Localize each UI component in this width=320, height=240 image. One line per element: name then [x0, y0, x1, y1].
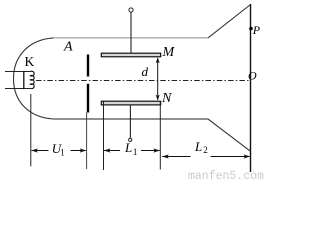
screen (right vertical line) [250, 4, 252, 172]
svg-text:A: A [63, 40, 73, 55]
tube envelope bottom edge [54, 118, 209, 120]
svg-text:O: O [248, 68, 257, 82]
U1 dimension left arrow [32, 150, 49, 152]
plate left drop line (L1 left boundary) [103, 102, 105, 171]
svg-text:P: P [252, 23, 261, 37]
heater lead top [5, 71, 30, 73]
gap arrow d (double headed) [157, 59, 159, 100]
svg-text:1: 1 [133, 147, 138, 157]
top terminal circle [129, 8, 133, 12]
svg-text:N: N [161, 91, 172, 106]
tube envelope top edge [54, 37, 209, 39]
cathode drop line (U1 left boundary) [30, 94, 32, 166]
L2 dimension left arrow [162, 156, 190, 158]
deflection plate M [101, 53, 160, 57]
central axis (dash-dot) [36, 80, 250, 82]
L1 dimension right arrow [141, 150, 160, 152]
svg-text:1: 1 [60, 148, 65, 158]
svg-text:L: L [124, 140, 132, 155]
svg-text:manfen5.com: manfen5.com [188, 170, 264, 181]
svg-text:L: L [194, 139, 202, 154]
deflection plate N [101, 101, 160, 105]
L2 dimension right arrow [211, 156, 250, 158]
tube rounded left cap [14, 38, 54, 119]
wire to top terminal [130, 12, 132, 53]
svg-text:K: K [25, 54, 35, 69]
svg-text:d: d [142, 64, 149, 79]
plate right drop line (L1/L2 boundary) [159, 102, 161, 170]
tube flare top [208, 5, 251, 38]
heater lead bottom [5, 88, 30, 90]
U1 dimension right arrow [71, 150, 86, 152]
anode drop line (U1 right boundary) [86, 113, 88, 170]
svg-text:2: 2 [203, 145, 208, 155]
svg-text:M: M [162, 45, 176, 60]
anode plate A lower bar [87, 84, 89, 113]
cathode bar K [23, 71, 25, 89]
tube flare bottom [208, 119, 251, 151]
wire to bottom terminal [129, 105, 131, 138]
filament coil [30, 71, 34, 88]
L1 dimension left arrow [104, 150, 120, 152]
bottom terminal circle [129, 138, 132, 141]
anode plate A upper bar [87, 55, 89, 77]
point P dot on screen [249, 27, 253, 31]
